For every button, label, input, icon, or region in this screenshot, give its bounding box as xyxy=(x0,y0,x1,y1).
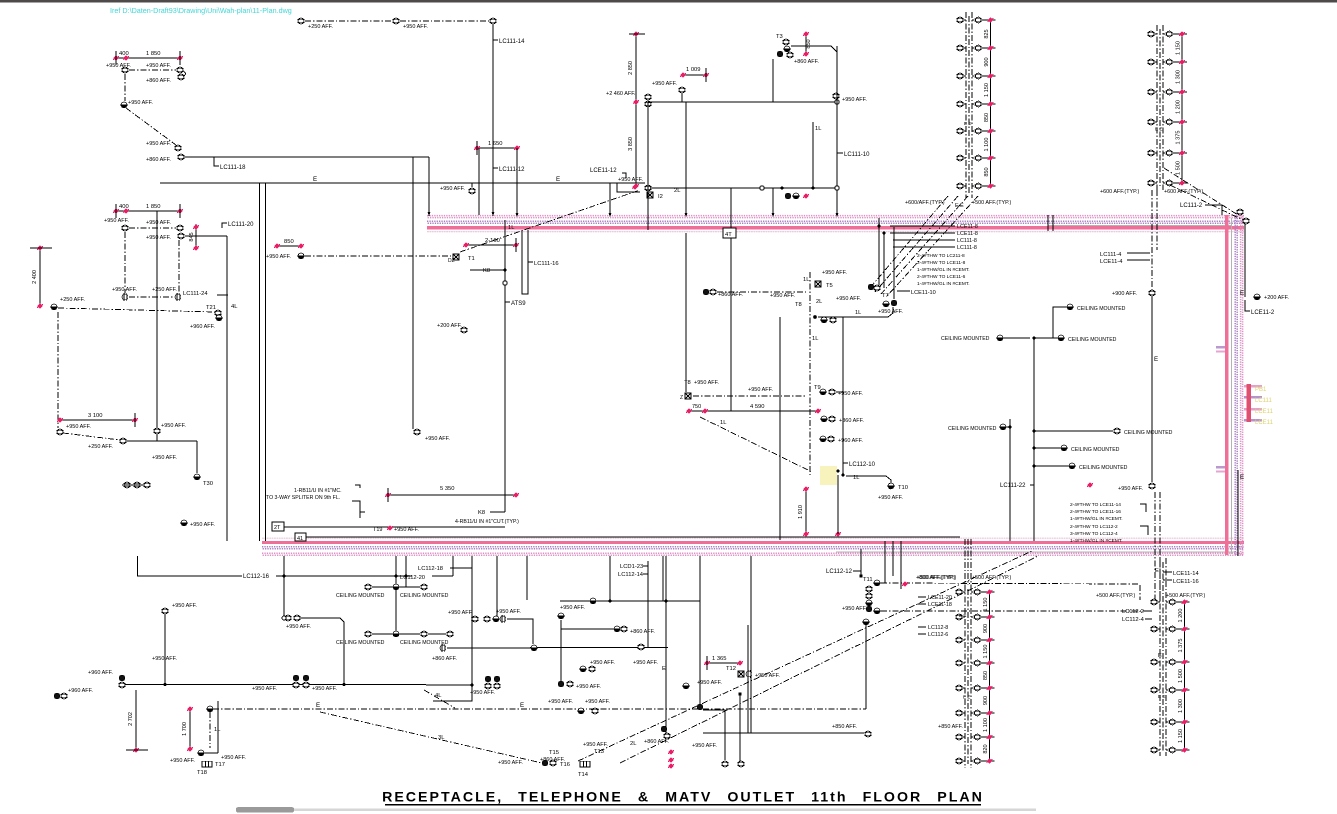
svg-text:1L: 1L xyxy=(812,336,819,342)
svg-text:CEILING MOUNTED: CEILING MOUNTED xyxy=(400,593,449,599)
svg-text:Iref D:\Daten-Draft93\Drawing\: Iref D:\Daten-Draft93\Drawing\Uni\Wah-pl… xyxy=(110,6,292,15)
svg-text:1 375: 1 375 xyxy=(1175,131,1181,145)
svg-text:850: 850 xyxy=(984,113,990,122)
svg-text:+950 AFF.: +950 AFF. xyxy=(425,436,450,442)
wire vert x=360 splitter to wall xyxy=(359,512,361,518)
wire y629 row xyxy=(561,628,613,630)
svg-text:PB1: PB1 xyxy=(1255,387,1267,393)
svg-text:LCE11-8: LCE11-8 xyxy=(957,231,978,237)
highlight yellow box xyxy=(820,466,837,485)
svg-text:T10: T10 xyxy=(898,485,908,491)
svg-text:+950 AFF.: +950 AFF. xyxy=(190,522,215,528)
wall right - jog notch upper xyxy=(1216,346,1225,348)
outlet T3d xyxy=(786,52,794,58)
svg-text:2-4#THW TO LCE11-8: 2-4#THW TO LCE11-8 xyxy=(917,260,966,266)
outlet pair rung y=761 xyxy=(955,758,963,764)
dim tick rung y=662 xyxy=(1182,659,1188,664)
svg-text:CEILING MOUNTED: CEILING MOUNTED xyxy=(336,593,385,599)
dim tick rung y=592 xyxy=(987,589,993,594)
svg-text:+950 AFF.: +950 AFF. xyxy=(585,699,610,705)
outlet pair rung y=737 xyxy=(955,734,963,740)
dim 1 365 xyxy=(707,662,740,664)
svg-text:+950 AFF.: +950 AFF. xyxy=(221,755,246,761)
svg-text:I2: I2 xyxy=(658,194,663,200)
svg-text:+900 AFF.: +900 AFF. xyxy=(1112,291,1137,297)
svg-text:5 350: 5 350 xyxy=(440,486,455,492)
wire c3 stub xyxy=(156,434,158,441)
wire horizontal y=157 xyxy=(184,156,429,158)
outlet t17 bottom xyxy=(197,750,205,756)
outlet x1152 y486 xyxy=(1148,483,1156,489)
wire row y634 xyxy=(372,633,392,635)
wire dash-dot vertical x=58 xyxy=(57,312,59,428)
outlet E1 xyxy=(468,188,476,194)
wire vertical x=686 below wall xyxy=(685,233,687,392)
outlet C1 xyxy=(56,429,64,435)
ceiling mounted row5 xyxy=(1113,428,1121,434)
wire bundle diag 4 xyxy=(887,196,978,296)
dim tick rung y=92 xyxy=(1179,89,1185,94)
svg-text:1 200: 1 200 xyxy=(1175,100,1181,114)
svg-text:K8: K8 xyxy=(478,510,485,516)
outlet G4 xyxy=(832,93,840,99)
node y471 xyxy=(836,469,839,472)
svg-text:820: 820 xyxy=(983,744,989,753)
outlet row y297 b xyxy=(175,293,181,301)
outlet pair rung y=34 xyxy=(1147,31,1155,37)
wire ladder dim line x=1182 xyxy=(1181,34,1183,183)
wire vertical x=731 box to rect xyxy=(730,188,732,228)
outlet row y619 a xyxy=(471,616,479,622)
svg-text:LC111-22: LC111-22 xyxy=(1000,483,1026,489)
outlet Z box xyxy=(685,393,691,399)
wire g1 stub xyxy=(681,93,683,102)
arrow x429 wall xyxy=(428,212,431,216)
dim tick rung y=122 xyxy=(1179,119,1185,124)
wall top - lavender band xyxy=(427,221,1244,223)
label LC112-10 leader xyxy=(843,462,848,464)
svg-text:E: E xyxy=(1240,290,1244,297)
svg-text:3-4#THW TO LC112-4: 3-4#THW TO LC112-4 xyxy=(1070,531,1118,537)
svg-text:T1: T1 xyxy=(468,256,475,262)
label LC111-20 leader xyxy=(222,223,227,228)
wire dash-dot A1-A2 xyxy=(129,69,176,71)
wire horizontal y=102 xyxy=(648,101,837,103)
outlet pair rung y=690 xyxy=(1150,687,1158,693)
outlet t17 top xyxy=(206,706,214,712)
dim tick rung y=761 xyxy=(987,758,993,763)
svg-text:+950 AFF.: +950 AFF. xyxy=(172,603,197,609)
outlet T7b pair xyxy=(882,301,890,307)
svg-text:K8: K8 xyxy=(483,268,490,274)
svg-text:2L: 2L xyxy=(674,188,681,194)
svg-text:LCE11-2: LCE11-2 xyxy=(1251,310,1275,316)
wire vertical x=666 xyxy=(665,556,667,736)
dim tick rung y=690 xyxy=(1182,687,1188,692)
label LCE11-14 leader xyxy=(1163,571,1172,573)
wire vertical x=493 down to wall xyxy=(492,24,494,216)
svg-text:2-4#THW TO LC112-2: 2-4#THW TO LC112-2 xyxy=(1070,524,1118,530)
svg-text:LC111-8: LC111-8 xyxy=(957,245,977,251)
svg-text:+950 AFF.: +950 AFF. xyxy=(403,24,428,30)
wire corner x866 up xyxy=(865,625,867,709)
outlet quad y685 b xyxy=(292,682,300,688)
wire y619 path corner xyxy=(507,619,533,644)
outlet G1 xyxy=(678,87,686,93)
svg-text:4T: 4T xyxy=(725,232,732,238)
node g4 xyxy=(835,100,839,104)
wire dash-dot to T21 xyxy=(58,308,215,312)
wire splitter bracket xyxy=(355,485,360,488)
outlet pair rung y=158 xyxy=(956,155,964,161)
wall bottom - grey face line right portion xyxy=(836,551,1236,552)
svg-text:E: E xyxy=(520,702,524,709)
svg-text:+2 460 AFF.: +2 460 AFF. xyxy=(606,91,636,97)
outlet pair rung y=183 xyxy=(1147,180,1155,186)
wire long vertical x=157 xyxy=(156,211,158,428)
wire diagonal T1 to cluster xyxy=(460,190,640,252)
dim tick rung y=34 xyxy=(1179,31,1185,36)
wire riser x=197 down xyxy=(196,441,198,473)
svg-text:2 850: 2 850 xyxy=(628,61,634,75)
svg-text:2L: 2L xyxy=(816,299,822,305)
svg-text:+950 AFF.: +950 AFF. xyxy=(286,624,311,630)
telephone outlet T17 xyxy=(202,761,212,767)
telephone outlet T14 xyxy=(580,761,590,767)
svg-text:+500 AFF.(TYP.): +500 AFF.(TYP.) xyxy=(1166,593,1206,599)
bottom scrollbar thumb xyxy=(236,807,294,812)
wire vertical x=663 xyxy=(662,556,664,601)
svg-text:4L: 4L xyxy=(231,304,238,310)
label ATS9 xyxy=(505,301,510,303)
outlet L2 diag end b xyxy=(1242,218,1250,224)
wire long dash-dot E line y709 xyxy=(213,708,866,710)
outlet C2 xyxy=(119,438,127,444)
wall top - grey face line right portion xyxy=(1048,225,1232,226)
svg-text:+950 AFF.: +950 AFF. xyxy=(822,270,847,276)
box 4T xyxy=(723,228,736,238)
svg-text:LC111-20: LC111-20 xyxy=(228,222,254,228)
outlet T21 b xyxy=(215,315,223,321)
svg-text:+800 AFF.(TYP.): +800 AFF.(TYP.) xyxy=(916,575,956,581)
outlet T10 xyxy=(887,483,895,489)
label LCD1-23 xyxy=(643,565,648,567)
outlet pair rung y=131 xyxy=(956,128,964,134)
dim tick rung y=76 xyxy=(988,73,994,78)
outlet pair rung y=48 xyxy=(956,45,964,51)
outlet L2 diag end a xyxy=(1236,209,1244,215)
svg-text:T14: T14 xyxy=(578,772,589,778)
outlet triple row y=485 xyxy=(123,482,131,488)
dim tick rung y=602 xyxy=(1182,599,1188,604)
svg-text:+950 AFF.: +950 AFF. xyxy=(152,656,177,662)
outlet T5 box xyxy=(815,281,821,287)
wire y=441 to riser xyxy=(126,440,197,442)
svg-text:+950 AFF.: +950 AFF. xyxy=(161,423,186,429)
svg-text:T9: T9 xyxy=(814,385,821,391)
svg-text:LC112-6: LC112-6 xyxy=(928,632,948,638)
wire y648 row xyxy=(447,647,530,649)
outlet row y634 d xyxy=(446,631,454,637)
svg-text:+950 AFF.: +950 AFF. xyxy=(498,760,523,766)
svg-text:+950 AFF.: +950 AFF. xyxy=(842,606,867,612)
dim 1 910 xyxy=(805,489,807,534)
svg-text:+250 AFF.: +250 AFF. xyxy=(60,297,85,303)
wire vertical x=843 xyxy=(842,317,844,475)
wall top - inner solid rose band xyxy=(427,226,1244,229)
svg-text:+950 AFF.: +950 AFF. xyxy=(878,495,903,501)
svg-text:+200 AFF.: +200 AFF. xyxy=(1264,295,1289,301)
wall right - protrusion bands xyxy=(1244,385,1262,387)
outlet row y619 d xyxy=(500,615,506,623)
svg-text:T12: T12 xyxy=(726,666,736,672)
outlet m1 xyxy=(820,317,828,323)
outlet F1 xyxy=(644,185,652,191)
svg-text:+960 AFF.: +960 AFF. xyxy=(68,688,93,694)
svg-text:+950 AFF.: +950 AFF. xyxy=(266,254,291,260)
svg-text:+950 AFF.: +950 AFF. xyxy=(394,527,419,533)
svg-text:+950 AFF.: +950 AFF. xyxy=(652,81,677,87)
svg-text:+600/AFF.(TYP.): +600/AFF.(TYP.) xyxy=(905,200,945,206)
svg-text:E: E xyxy=(1240,474,1244,481)
wire vertical x=740 xyxy=(739,694,741,761)
wire dash-dot C1-C2 xyxy=(63,433,120,440)
dim 1 700 vertical xyxy=(189,709,191,749)
outlet A4 (half filled) xyxy=(120,102,128,108)
dim 2 400 vertical far left xyxy=(39,248,41,306)
wall top - faint inner dotted row xyxy=(427,231,1244,233)
svg-text:850: 850 xyxy=(984,167,990,176)
svg-text:1 500: 1 500 xyxy=(1178,669,1184,683)
dim tick rung y=183 xyxy=(1179,180,1185,185)
svg-text:CEILING MOUNTED: CEILING MOUNTED xyxy=(941,336,990,342)
wire vertical x=894 xyxy=(893,227,895,299)
svg-text:+950 AFF.: +950 AFF. xyxy=(560,605,585,611)
svg-text:+950 AFF.: +950 AFF. xyxy=(633,660,658,666)
dim tick rung y=713 xyxy=(987,710,993,715)
svg-text:LCE11-4: LCE11-4 xyxy=(1100,259,1123,265)
wire T3 loop top xyxy=(791,46,837,52)
outlet x666 bottom b xyxy=(663,733,671,739)
dim tick rung y=153 xyxy=(1179,150,1185,155)
outlet pair y669 b xyxy=(588,666,596,672)
svg-text:1-4#THW/GL IN #CEMT.: 1-4#THW/GL IN #CEMT. xyxy=(1070,538,1123,544)
dim tick rung y=131 xyxy=(988,128,994,133)
dim row y411 xyxy=(689,410,818,412)
outlet pair rung y=104 xyxy=(956,101,964,107)
wall bottom - inner solid rose band xyxy=(262,541,1244,544)
svg-text:CEILING MOUNTED: CEILING MOUNTED xyxy=(1079,465,1128,471)
wire x165 stub xyxy=(164,614,166,684)
svg-text:2-4#THW TO LCE11-16: 2-4#THW TO LCE11-16 xyxy=(1070,509,1121,515)
outlet bundle end b xyxy=(873,285,881,291)
wire vertical x=731 below box xyxy=(730,238,732,411)
svg-text:ATS9: ATS9 xyxy=(511,301,526,307)
dim tick rung y=104 xyxy=(988,101,994,106)
outlet quad y679/y686 b xyxy=(484,683,492,689)
svg-text:1-4#THW/GL IN #CEMT.: 1-4#THW/GL IN #CEMT. xyxy=(917,267,970,273)
outlet pair rung y=662 xyxy=(1150,659,1158,665)
svg-text:LCE11-12: LCE11-12 xyxy=(590,168,617,174)
label LC112-20 fix leader xyxy=(432,575,453,577)
wire vertical x=505 xyxy=(504,220,506,512)
dim tick rung y=186 xyxy=(988,183,994,188)
svg-text:+860 AFF.: +860 AFF. xyxy=(146,78,171,84)
svg-text:3 100: 3 100 xyxy=(88,413,103,419)
svg-text:2-4#THW TO LC211-8: 2-4#THW TO LC211-8 xyxy=(917,253,965,259)
wire vertical x=610 to wall xyxy=(609,183,611,216)
outlet pair rung y=663 xyxy=(955,660,963,666)
wire vertical x=413 xyxy=(412,157,414,429)
svg-text:CEILING MOUNTED: CEILING MOUNTED xyxy=(1071,447,1120,453)
dim tick rung y=688 xyxy=(987,685,993,690)
wire black vertical in wall bottom xyxy=(1237,470,1239,556)
ceiling mounted row3 xyxy=(1057,335,1065,341)
svg-text:1 365: 1 365 xyxy=(712,656,727,662)
svg-text:+950 AFF.: +950 AFF. xyxy=(618,177,643,183)
svg-text:+950 AFF.: +950 AFF. xyxy=(66,424,91,430)
outlet A5 xyxy=(174,145,182,151)
wire 1L line y317 xyxy=(818,307,893,317)
outlet row y297 a xyxy=(122,293,128,301)
wall right - inner solid rose band xyxy=(1225,215,1228,555)
outlet pair rung y=629 xyxy=(1150,626,1158,632)
wire 41 connector xyxy=(306,536,960,538)
svg-text:1 500: 1 500 xyxy=(1175,161,1181,175)
svg-text:LC111-12: LC111-12 xyxy=(499,167,525,173)
dim tick rung y=737 xyxy=(987,734,993,739)
wire big diagonal D1 xyxy=(578,551,1032,761)
svg-text:LC112-14: LC112-14 xyxy=(618,572,644,578)
outlet y686 xyxy=(682,683,690,689)
outlet y601 xyxy=(589,598,597,604)
outlet pair y684 xyxy=(558,681,564,687)
wire dashdot x125 down xyxy=(124,232,126,293)
node j1 xyxy=(780,186,783,189)
svg-text:T5: T5 xyxy=(826,283,833,289)
svg-text:LC112-10: LC112-10 xyxy=(849,462,876,468)
tick y585 xyxy=(902,581,908,586)
wire vertical x=780 xyxy=(779,317,781,540)
wire x472 corner to 701 xyxy=(433,685,472,701)
wire vertical x=861 xyxy=(860,549,862,576)
outlet y629 pair xyxy=(613,626,621,632)
ceiling mounted row7 xyxy=(1068,463,1076,469)
svg-text:2 702: 2 702 xyxy=(128,712,134,726)
svg-text:850: 850 xyxy=(806,39,812,48)
wire y618 elbow to y684 xyxy=(300,618,344,684)
node j2 xyxy=(811,186,814,189)
svg-text:+850 AFF.: +850 AFF. xyxy=(938,724,963,730)
svg-text:1L: 1L xyxy=(803,277,810,283)
svg-text:400: 400 xyxy=(119,51,129,57)
svg-text:LCE11: LCE11 xyxy=(1255,409,1274,415)
label LC111-12 leader xyxy=(493,167,498,169)
svg-text:CEILING MOUNTED: CEILING MOUNTED xyxy=(1124,430,1173,436)
svg-text:1 850: 1 850 xyxy=(146,51,161,57)
wire long horizontal y=183 (E) xyxy=(160,182,645,184)
dim 1 029 xyxy=(683,74,706,76)
outlet left pair y696 xyxy=(54,693,60,699)
wire dashdot x=1155 through wall xyxy=(1154,492,1156,600)
svg-text:1-4#THW/GL IN #CEMT.: 1-4#THW/GL IN #CEMT. xyxy=(917,281,970,287)
wire dash-dot down from A1 xyxy=(124,74,126,101)
svg-text:41: 41 xyxy=(297,536,303,542)
outlet T12 x xyxy=(738,671,744,677)
svg-text:+960 AFF.: +960 AFF. xyxy=(190,324,215,330)
wire vertical x=901 xyxy=(900,541,902,589)
svg-text:E: E xyxy=(556,176,560,183)
wall bottom - outer dotted pink band xyxy=(262,553,1244,555)
dim tick rung y=629 xyxy=(1182,626,1188,631)
ceiling mounted row2 xyxy=(1066,304,1074,310)
wire dash-dot row y297 xyxy=(129,296,174,298)
wire vertical x=813 (1L) xyxy=(812,122,814,188)
wire vertical x=561 xyxy=(560,620,562,683)
dim tick rung y=663 xyxy=(987,660,993,665)
svg-text:LC111-14: LC111-14 xyxy=(499,39,525,45)
dim tick f1 xyxy=(632,184,638,189)
dim tick rung y=640 xyxy=(987,637,993,642)
wire arc A2-A3 xyxy=(183,71,186,76)
label LC111-14 leader xyxy=(493,39,498,41)
outlet x165 xyxy=(161,608,169,614)
outlet T3b xyxy=(783,46,791,52)
svg-text:LC111-8: LC111-8 xyxy=(957,238,977,244)
svg-text:+950 AFF.: +950 AFF. xyxy=(440,186,465,192)
wire riser x=227 to bottom wall xyxy=(226,236,228,541)
outlet H1 filled xyxy=(785,193,791,199)
svg-text:+950 AFF.: +950 AFF. xyxy=(842,97,867,103)
outlet pair rung y=688 xyxy=(955,685,963,691)
wire vertical x=885b xyxy=(884,541,886,583)
svg-text:+860 AFF.: +860 AFF. xyxy=(644,739,669,745)
outlet row21 b xyxy=(392,18,400,24)
svg-text:900: 900 xyxy=(984,57,990,66)
wall top - outer dotted pink band xyxy=(427,216,1244,218)
wire dash-dot to T1 xyxy=(305,255,452,257)
wire rect left x=686 xyxy=(685,102,687,216)
wire big diagonal D1 companion xyxy=(620,556,1038,763)
svg-text:+950 AFF.: +950 AFF. xyxy=(146,63,171,69)
svg-text:E: E xyxy=(313,176,317,183)
label LC111-10 leader xyxy=(837,152,843,154)
ceiling mounted row6 xyxy=(1060,445,1068,451)
outlet B1 xyxy=(121,225,129,231)
wire vertical x=497 xyxy=(496,556,498,619)
outlet T1 source xyxy=(297,253,305,259)
svg-text:CEILING MOUNTED: CEILING MOUNTED xyxy=(336,640,385,646)
svg-text:1L: 1L xyxy=(508,225,515,231)
outlet B2 xyxy=(176,225,184,231)
svg-text:+950 AFF.: +950 AFF. xyxy=(878,309,903,315)
dim vertical x=636 xyxy=(635,34,637,186)
svg-text:+860 AFF.: +860 AFF. xyxy=(630,629,655,635)
wire lce11-2 leader xyxy=(1245,300,1250,311)
svg-text:+950 AFF.: +950 AFF. xyxy=(448,610,473,616)
svg-text:2-4#THW TO LCE11-6: 2-4#THW TO LCE11-6 xyxy=(917,274,966,280)
dim tick rung y=62 xyxy=(1179,59,1185,64)
wire feeder brackets xyxy=(1140,504,1146,512)
svg-text:LCE11-10: LCE11-10 xyxy=(911,290,936,296)
outlet A3 xyxy=(177,74,185,80)
wire dashdot x210 xyxy=(209,712,211,748)
row y439 xyxy=(819,436,827,442)
svg-text:LC112-16: LC112-16 xyxy=(243,574,270,580)
wire t17 link xyxy=(205,752,218,754)
svg-text:+960 AFF.: +960 AFF. xyxy=(838,438,863,444)
outlet bundle end a xyxy=(868,284,874,290)
